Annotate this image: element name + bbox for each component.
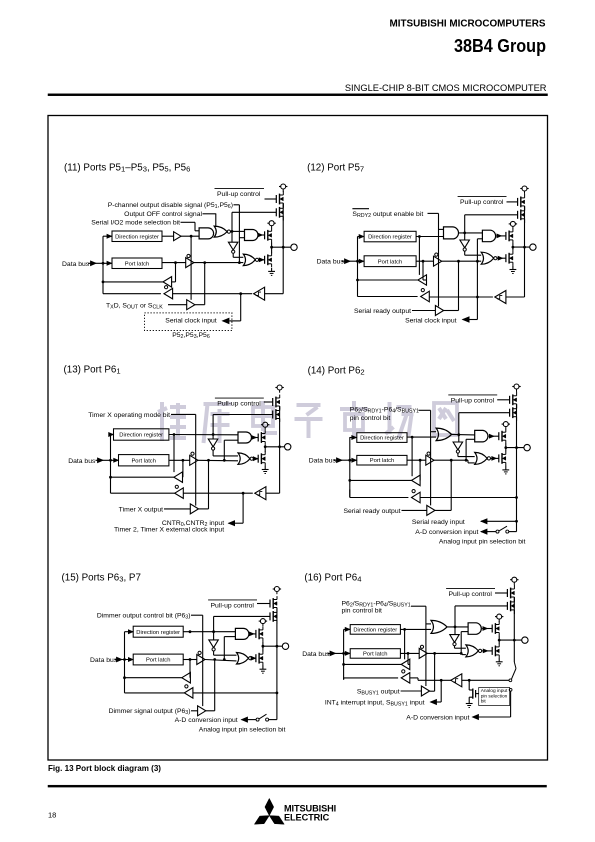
wire V1 to G3 (12) xyxy=(465,251,482,255)
wire B4 out (12) xyxy=(358,296,418,298)
wire B4 out (11) xyxy=(103,293,161,295)
wire B6 out (15) xyxy=(206,660,215,711)
buffer B2 latch (16) xyxy=(400,645,427,658)
wire Q2 gate (11) xyxy=(232,211,276,213)
svg-text:Analog input pin selection bit: Analog input pin selection bit xyxy=(439,539,526,546)
buffer B5 input hysteresis (12) xyxy=(495,291,506,304)
wire dir to G1 (12) xyxy=(416,235,443,238)
wire B4 out (15) xyxy=(125,692,185,694)
svg-text:P52,P53,P56: P52,P53,P56 xyxy=(172,332,210,340)
buffer B1 direction (11) xyxy=(162,232,181,241)
Vcc output PMOS supply (13) xyxy=(261,422,269,430)
transistor Q1 pull-up PMOS (11) xyxy=(276,191,283,207)
wire dir line to G1 (15) xyxy=(183,630,235,633)
block Direction register (13) xyxy=(114,429,169,440)
svg-text:Serial clock input: Serial clock input xyxy=(405,318,456,325)
gate G2 NOR (13) xyxy=(238,453,258,465)
svg-text:ELECTRIC: ELECTRIC xyxy=(284,813,330,823)
wire V1 to G3 (16) xyxy=(455,646,466,648)
wire output node (11) xyxy=(270,243,273,254)
svg-text:pin control bit: pin control bit xyxy=(342,608,383,615)
pad output pin (15) xyxy=(282,643,288,649)
block analog select label (16) xyxy=(479,688,510,706)
wire B3 out (14) xyxy=(348,479,411,482)
wire node to Q2 gate (12) xyxy=(464,215,466,233)
wire pullup rail (13) xyxy=(278,406,281,448)
transistor Q2 pull-up PMOS (14) xyxy=(510,405,517,421)
svg-text:Pull-up control: Pull-up control xyxy=(217,191,261,198)
buffer B4 read pin (12) xyxy=(421,289,430,302)
block Direction register (15) xyxy=(133,626,183,637)
svg-text:Data bus: Data bus xyxy=(317,259,345,266)
block Direction register (16) xyxy=(350,625,400,635)
node data bus junction (14) xyxy=(348,459,351,462)
transistor Q4 output NMOS (14) xyxy=(499,451,506,466)
wire serial clock tap (11) xyxy=(223,294,241,324)
net Timer X operating mode bit (13) xyxy=(88,412,195,419)
pad output pin (16) xyxy=(522,637,528,643)
net Data bus (14) xyxy=(309,458,357,465)
svg-text:Port latch: Port latch xyxy=(370,458,395,464)
svg-text:Serial ready input: Serial ready input xyxy=(412,519,465,526)
Vcc supply (15) xyxy=(273,587,281,595)
wire Q2 gate (12) xyxy=(465,214,518,216)
wire B5 input (16) xyxy=(462,679,509,682)
wire rail to B5 (13) xyxy=(266,447,280,493)
wire pullup rail (12) xyxy=(523,206,526,248)
svg-text:Pull-up control: Pull-up control xyxy=(211,603,255,610)
wire bus vertical (12) xyxy=(357,237,359,297)
buffer B5 input hysteresis (11) xyxy=(254,287,265,300)
title (11) xyxy=(64,163,190,174)
svg-text:Output OFF control signal: Output OFF control signal xyxy=(124,211,202,218)
transistor Q1 pull-up PMOS (16) xyxy=(507,585,514,601)
svg-text:Timer X operating mode bit: Timer X operating mode bit xyxy=(88,412,170,419)
Vcc supply (13) xyxy=(275,385,283,393)
title (16) xyxy=(304,573,362,584)
ground output NMOS (12) xyxy=(510,266,517,274)
transistor Q3 output PMOS (12) xyxy=(506,229,513,244)
wire B4 out (13) xyxy=(111,492,175,494)
gate G1 AND (15) xyxy=(235,628,256,639)
wire G1 out node (14) xyxy=(452,433,475,436)
wire bus vertical (16) xyxy=(343,629,345,679)
buffer B3 read latch XX (11) xyxy=(163,263,176,287)
svg-text:18: 18 xyxy=(48,811,56,820)
Vcc output PMOS supply (16) xyxy=(495,614,503,622)
inverter V1 (12) xyxy=(460,240,470,251)
wire Q2 gate (16) xyxy=(455,605,507,607)
transistor Q4 output NMOS (16) xyxy=(492,644,499,659)
gate G2 AND (16) xyxy=(468,623,492,635)
wire B6 out (16) xyxy=(430,653,435,691)
wire B2 out to G3 (12) xyxy=(442,260,482,263)
buffer B5 input hysteresis (13) xyxy=(255,487,266,500)
gate G3 AND (11) xyxy=(245,230,265,241)
wire pullup rail (14) xyxy=(515,404,518,449)
title (15) xyxy=(62,572,141,583)
wire analog select gate (16) xyxy=(476,693,479,695)
buffer B3 read dir (16) xyxy=(401,653,410,669)
wire pull-up control to Q1 gate (11) xyxy=(265,198,277,200)
svg-text:Data bus: Data bus xyxy=(302,651,330,658)
wire pullup rail (15) xyxy=(276,608,279,648)
block Direction register (11) xyxy=(112,231,162,242)
net Analog input pin selection bit (14) xyxy=(439,539,526,546)
svg-text:Direction register: Direction register xyxy=(353,628,397,634)
transistor Q2 pull-up PMOS (15) xyxy=(270,609,277,624)
svg-text:Timer 2, Timer X external cloc: Timer 2, Timer X external clock input xyxy=(114,527,224,534)
wire pin control drop (14) xyxy=(431,410,437,505)
wire pin readback (11) xyxy=(173,292,253,295)
transistor Q3 output PMOS (11) xyxy=(265,228,272,242)
svg-text:SBUSY1 output: SBUSY1 output xyxy=(357,689,400,697)
svg-text:38B4 Group: 38B4 Group xyxy=(454,35,546,56)
Vcc output PMOS supply (14) xyxy=(502,422,510,430)
svg-text:Port latch: Port latch xyxy=(378,260,403,266)
buffer B2 latch (11) xyxy=(162,254,194,267)
wire bus vertical (15) xyxy=(124,632,126,693)
gate G2 NOR (11) xyxy=(214,226,230,237)
transistor Q1 pull-up PMOS (15) xyxy=(270,596,277,611)
gate G2 NOR (15) xyxy=(237,653,256,665)
svg-text:Pull-up control: Pull-up control xyxy=(451,398,495,405)
wire pullup rail (16) xyxy=(513,597,516,641)
block Direction register (12) xyxy=(364,231,416,242)
wire B2 out to G3 (16) xyxy=(427,652,466,655)
wire output OFF drop (11) xyxy=(215,214,217,227)
buffer B3 read dir (12) xyxy=(418,237,427,286)
wire G1 out node (16) xyxy=(447,626,468,629)
wire pin readback (13) xyxy=(183,492,253,495)
svg-text:bit: bit xyxy=(481,698,487,704)
wire G1 out node (12) xyxy=(459,232,483,235)
wire Q2 gate (14) xyxy=(459,412,510,414)
svg-text:INT4 interrupt input, SBUSY1 i: INT4 interrupt input, SBUSY1 input xyxy=(325,699,425,707)
wire pin readback (12) xyxy=(429,296,493,298)
net SRDY2 output enable bit (12) xyxy=(352,209,438,219)
wire latch riser to G1 (15) xyxy=(224,637,235,660)
buffer B2 latch (13) xyxy=(169,452,198,465)
wire B4 out (14) xyxy=(350,490,409,498)
buffer B6 sbusy (16) xyxy=(421,686,429,696)
net Output OFF control signal (11) xyxy=(124,211,216,218)
wire dir input (16) xyxy=(344,628,351,632)
wire output node (12) xyxy=(512,243,515,251)
wire B1 out to G1 (11) xyxy=(181,235,199,237)
buffer B6 serial ready (12) xyxy=(435,306,443,316)
transistor Q3 output PMOS (14) xyxy=(499,429,506,444)
buffer B5 input hysteresis INT4 (16) xyxy=(451,674,462,687)
svg-text:(14) Port P62: (14) Port P62 xyxy=(308,365,365,376)
svg-text:Pull-up control: Pull-up control xyxy=(449,591,493,598)
transistor Q4 output NMOS (15) xyxy=(256,651,263,666)
wire node to inverter (14) xyxy=(458,435,460,442)
net P52 P53 P56 (11) xyxy=(172,332,210,340)
pad output pin (13) xyxy=(285,444,291,450)
wire to pad (12) xyxy=(513,246,530,248)
wire pull-up to Q1 gate (14) xyxy=(497,399,509,401)
svg-text:TXD, SOUT or SCLK: TXD, SOUT or SCLK xyxy=(106,302,163,310)
net Pull-up control (12) xyxy=(458,197,507,207)
node data bus junction (15) xyxy=(123,658,126,661)
header text 38B4 Group xyxy=(454,35,546,56)
wire pullup rail (11) xyxy=(282,203,285,248)
transistor Q3 output PMOS (13) xyxy=(258,430,265,445)
transistor Q1 pull-up PMOS (12) xyxy=(518,194,525,210)
svg-text:Pull-up control: Pull-up control xyxy=(217,401,261,408)
page number xyxy=(48,811,56,820)
svg-text:Serial clock input: Serial clock input xyxy=(165,317,216,324)
caption Fig. 13 xyxy=(48,764,161,773)
block Port latch (11) xyxy=(112,258,162,269)
buffer B2 latch (15) xyxy=(183,651,205,664)
buffer B4 read pin (14) xyxy=(412,490,421,503)
gate G1 AND (11) xyxy=(199,228,214,239)
wire pin readback (15) xyxy=(193,692,278,695)
wire to pad (11) xyxy=(272,246,291,248)
wire B4 out (16) xyxy=(344,678,399,680)
wire pin readback (14) xyxy=(420,497,516,499)
gate G4 NOR (11) xyxy=(243,254,264,266)
net P-channel output disable (11) xyxy=(108,202,240,210)
gate G1 AND (12) xyxy=(444,227,459,239)
svg-text:Data bus: Data bus xyxy=(62,261,90,268)
svg-text:Port latch: Port latch xyxy=(131,459,156,465)
inverter V1 (15) xyxy=(209,640,219,651)
buffer B6 TxD (11) xyxy=(187,235,195,310)
block Port latch (15) xyxy=(133,654,183,665)
wire bus vertical (11) xyxy=(102,236,104,294)
svg-text:(12) Port P57: (12) Port P57 xyxy=(307,162,364,173)
node data bus junction (12) xyxy=(356,260,359,263)
svg-text:(11) Ports P51–P53, P55, P56: (11) Ports P51–P53, P55, P56 xyxy=(64,163,190,174)
transistor Q4 output NMOS (11) xyxy=(265,253,272,267)
node data bus junction (11) xyxy=(102,262,105,265)
wire riser to Q2 gate (13) xyxy=(212,415,215,440)
net CNTR input (13) xyxy=(114,493,243,533)
ground output NMOS (16) xyxy=(496,658,503,666)
svg-text:Dimmer signal output (P63): Dimmer signal output (P63) xyxy=(109,708,191,716)
node G2 output (11) xyxy=(231,230,245,233)
net Dimmer output control bit (15) xyxy=(97,613,203,621)
transistor Q1 pull-up PMOS (13) xyxy=(273,395,280,410)
node data bus junction (13) xyxy=(109,459,112,462)
buffer B4 read pin (11) xyxy=(164,286,173,299)
wire node to inverter (12) xyxy=(464,233,466,240)
gate G2 AND (14) xyxy=(475,430,499,442)
transistor Q3 output PMOS (15) xyxy=(256,627,263,642)
switch analog (15) xyxy=(256,714,277,721)
wire pull-up to Q1 gate (15) xyxy=(257,603,270,605)
svg-text:Port latch: Port latch xyxy=(363,652,388,658)
transistor Q3 output PMOS (16) xyxy=(492,621,499,636)
transistor Q2 pull-up PMOS (11) xyxy=(276,204,283,220)
net A-D conversion input (14) xyxy=(415,529,496,536)
net A-D conversion input (15) xyxy=(175,717,256,724)
net Serial clock input (12) xyxy=(405,297,477,325)
wire V1 to G2 (15) xyxy=(214,651,237,655)
net Dimmer signal output (15) xyxy=(109,708,198,716)
wire latch tap to G2 (12) xyxy=(476,239,482,299)
svg-text:Direction register: Direction register xyxy=(360,436,404,442)
svg-text:Data bus: Data bus xyxy=(68,458,96,465)
buffer B3 read dir (13) xyxy=(174,460,183,482)
wire riser to Q2 gate (15) xyxy=(212,616,215,640)
net pin control bit (16) xyxy=(342,600,426,614)
net Data bus (16) xyxy=(302,651,350,658)
wire pull-up to Q1 gate (12) xyxy=(507,201,518,203)
wire node to Q2 gate (16) xyxy=(454,606,456,627)
wire control drop (15) xyxy=(202,615,204,706)
wire output node (14) xyxy=(504,443,507,451)
svg-text:Direction register: Direction register xyxy=(136,630,180,636)
wire node to Q2 gate (11) xyxy=(231,212,233,231)
buffer B4 read pin (15) xyxy=(184,685,193,698)
inverter V1 (13) xyxy=(208,439,218,450)
buffer B6 serial ready (14) xyxy=(427,505,435,515)
svg-text:Direction register: Direction register xyxy=(115,234,159,240)
net TxD Sout Sclk (11) xyxy=(106,302,187,310)
block Port latch (13) xyxy=(119,455,169,466)
footer rule xyxy=(48,785,547,787)
svg-text:Direction register: Direction register xyxy=(119,433,163,439)
diagram frame xyxy=(48,116,548,761)
wire B6 out (11) xyxy=(195,263,205,304)
wire V1 to G2 (13) xyxy=(213,450,238,456)
wire pin control drop (16) xyxy=(426,606,431,686)
svg-text:Timer X output: Timer X output xyxy=(119,506,163,513)
wire dir input (15) xyxy=(125,630,134,634)
wire B6 out (12) xyxy=(443,261,459,310)
buffer B3 read dir (15) xyxy=(182,660,191,684)
wire rail to B5 (12) xyxy=(506,247,525,297)
net INT4 interrupt input (16) xyxy=(325,680,441,707)
wire output node (15) xyxy=(262,641,265,651)
Vcc supply (11) xyxy=(279,184,287,192)
buffer B2 latch (14) xyxy=(407,452,434,465)
header rule xyxy=(48,94,548,96)
ground output NMOS (15) xyxy=(260,665,267,673)
wire to pad (13) xyxy=(265,446,284,448)
wire B3 out (12) xyxy=(356,279,418,282)
inverter V1 (16) xyxy=(450,635,459,646)
switch to rail (16) xyxy=(509,640,516,682)
net SBUSY1 output (16) xyxy=(357,689,422,697)
svg-text:Serial ready output: Serial ready output xyxy=(343,508,400,515)
wire P-channel disable drop (11) xyxy=(238,205,245,264)
gate G1 OR (14) xyxy=(436,428,452,441)
net Serial I/O2 mode selection bit (11) xyxy=(91,220,195,227)
transistor Q2 pull-up PMOS (12) xyxy=(518,207,525,223)
wire dir input (13) xyxy=(109,433,114,437)
svg-text:Data bus: Data bus xyxy=(309,458,337,465)
transistor Q4 output NMOS (12) xyxy=(506,251,513,266)
header subtitle xyxy=(345,83,547,93)
block Port latch (14) xyxy=(357,455,407,465)
wire to pad (16) xyxy=(499,639,522,641)
wire node to inverter (11) xyxy=(231,231,233,242)
wire pull-up to Q1 gate (13) xyxy=(264,401,273,403)
ground output NMOS (11) xyxy=(268,268,275,276)
svg-text:Fig. 13 Port block diagram (3: Fig. 13 Port block diagram (3) xyxy=(48,764,161,773)
svg-text:Pull-up control: Pull-up control xyxy=(460,199,504,206)
net A-D conversion input (16) xyxy=(406,688,512,721)
wire dir reg input (11) xyxy=(103,234,112,238)
svg-text:A-D conversion input: A-D conversion input xyxy=(406,715,469,722)
logo text xyxy=(284,803,336,822)
net pin control bit (14) xyxy=(350,406,431,422)
wire to pad (15) xyxy=(263,645,282,647)
svg-text:P-channel output disable signa: P-channel output disable signal (P51,P56… xyxy=(108,202,233,210)
net Serial ready output (14) xyxy=(343,508,426,515)
header text MITSUBISHI MICROCOMPUTERS xyxy=(390,19,546,30)
wire B2 out to G3 (14) xyxy=(434,459,475,463)
svg-text:Analog input: Analog input xyxy=(481,688,508,694)
gate G1 OR (16) xyxy=(431,620,447,633)
svg-text:Direction register: Direction register xyxy=(368,235,412,241)
gate G3 NOR (16) xyxy=(466,645,492,657)
transistor Q4 output NMOS (13) xyxy=(258,451,265,466)
buffer B6 dimmer (15) xyxy=(198,706,206,716)
svg-text:Data bus: Data bus xyxy=(90,657,118,664)
svg-text:P62/SRDY1-P64/SBUSY1: P62/SRDY1-P64/SBUSY1 xyxy=(350,406,419,414)
wire B2 out to G2 (13) xyxy=(198,459,238,462)
inverter V1 (11) xyxy=(228,242,238,253)
wire B6 out (14) xyxy=(435,460,451,510)
wire B3 out (15) xyxy=(123,676,182,679)
wire pin readback (16) xyxy=(410,678,451,682)
net Timer X output (13) xyxy=(119,506,191,513)
title (13) xyxy=(64,364,121,375)
svg-text:Serial ready output: Serial ready output xyxy=(354,308,411,315)
net Data bus (13) xyxy=(68,458,118,465)
ground output NMOS (13) xyxy=(262,466,269,474)
svg-text:A-D conversion input: A-D conversion input xyxy=(175,717,238,724)
wire B6 out (13) xyxy=(199,460,209,509)
block Direction register (14) xyxy=(357,433,407,443)
svg-text:SRDY2 output enable bit: SRDY2 output enable bit xyxy=(352,211,423,219)
net Pull-up control (13) xyxy=(215,398,264,408)
pad output pin (12) xyxy=(530,244,536,250)
wire dir input (14) xyxy=(350,436,357,440)
transistor Q1 pull-up PMOS (14) xyxy=(510,392,517,408)
Vcc supply (16) xyxy=(510,577,518,585)
Vcc supply (14) xyxy=(512,384,520,392)
svg-text:Port latch: Port latch xyxy=(146,658,171,664)
block Port latch (16) xyxy=(350,649,400,659)
wire Q2 gate (15) xyxy=(214,615,270,617)
net Pull-up control (14) xyxy=(448,395,497,405)
transistor Q2 pull-up PMOS (16) xyxy=(507,598,514,614)
wire output node (13) xyxy=(264,445,267,452)
svg-text:MITSUBISHI MICROCOMPUTERS: MITSUBISHI MICROCOMPUTERS xyxy=(390,19,546,30)
net Data bus (12) xyxy=(317,259,365,266)
gate G3 NOR (14) xyxy=(475,452,499,464)
watermark xyxy=(158,401,457,443)
wire B2 out to G2 (15) xyxy=(205,658,237,661)
block Serial clock input (11) xyxy=(145,313,232,331)
net Pull-up control (15) xyxy=(208,600,257,610)
net Data bus (11) xyxy=(62,261,112,268)
wire rail to B5 (11) xyxy=(265,247,284,294)
gate G3 NOR (12) xyxy=(481,252,506,264)
wire bus vertical (14) xyxy=(349,437,351,497)
node data bus junction (16) xyxy=(342,652,345,655)
wire output node (16) xyxy=(498,636,501,644)
Vcc output PMOS supply (12) xyxy=(509,221,517,229)
net Pull-up control (11) xyxy=(215,188,265,198)
